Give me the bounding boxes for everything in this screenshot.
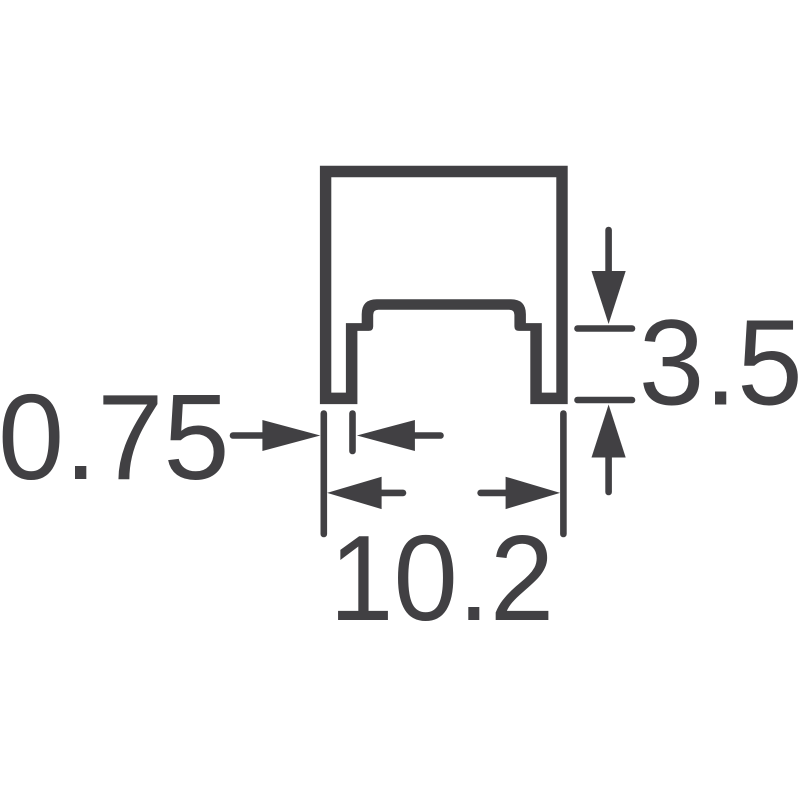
second extension line (0.75) [349,414,356,452]
0.75 arrow pointing left [357,420,441,451]
component outline (shield can cross-section) [320,166,568,404]
svg-text:10.2: 10.2 [329,510,554,646]
10.2 left arrow pointing left [327,477,403,509]
svg-text:0.75: 0.75 [0,369,230,505]
svg-text:3.5: 3.5 [639,295,800,431]
upper extension line (3.5) [578,325,633,332]
lower extension line (3.5) [578,397,633,404]
right extension line (10.2) [560,414,567,535]
3.5 bottom arrow pointing up [592,405,626,493]
3.5 top arrow pointing down [592,230,626,324]
10.2 right arrow pointing right [481,477,560,509]
0.75 leader arrow pointing right [233,420,320,451]
left extension line (10.2 / 0.75) [320,414,327,535]
